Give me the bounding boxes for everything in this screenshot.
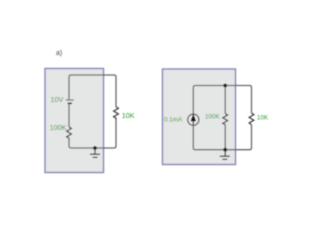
subcircuit box (left)	[45, 69, 104, 173]
svg-text:100K: 100K	[205, 113, 221, 120]
wire: right circuit top rail	[193, 86, 251, 115]
svg-text:0.1mA: 0.1mA	[164, 116, 183, 123]
wire: battery to resistor R1	[68, 104, 70, 127]
ground (left circuit)	[90, 148, 100, 157]
voltage source V1 10V (battery)	[66, 100, 74, 103]
resistor R1 100K (zigzag)	[67, 127, 72, 139]
resistor R2 10K (zigzag)	[114, 107, 119, 120]
svg-text:100K: 100K	[50, 123, 67, 132]
wire: left circuit top rail and right branch top	[69, 75, 116, 107]
wire: middle branch bottom	[224, 125, 226, 150]
svg-text:10V: 10V	[51, 95, 64, 104]
svg-text:a): a)	[56, 50, 62, 57]
svg-text:10K: 10K	[257, 115, 269, 122]
node: junction dot top (right circuit)	[223, 84, 227, 88]
subcircuit box (right)	[163, 69, 236, 165]
svg-text:10K: 10K	[122, 111, 135, 120]
resistor R3 100K (zigzag)	[223, 114, 228, 125]
resistor R4 10K (zigzag)	[249, 113, 254, 125]
node: junction dot bottom (right circuit)	[223, 148, 227, 152]
wire: R1 to bottom rail, bottom rail, right branch bottom	[69, 120, 116, 148]
wire: middle branch top (to R3)	[224, 86, 226, 114]
wire: current source to bottom rail, bottom rail, right branch	[193, 125, 251, 150]
current source I1 0.1mA	[188, 114, 199, 126]
ground (right circuit)	[220, 150, 230, 160]
node: junction dot left circuit	[93, 146, 97, 150]
